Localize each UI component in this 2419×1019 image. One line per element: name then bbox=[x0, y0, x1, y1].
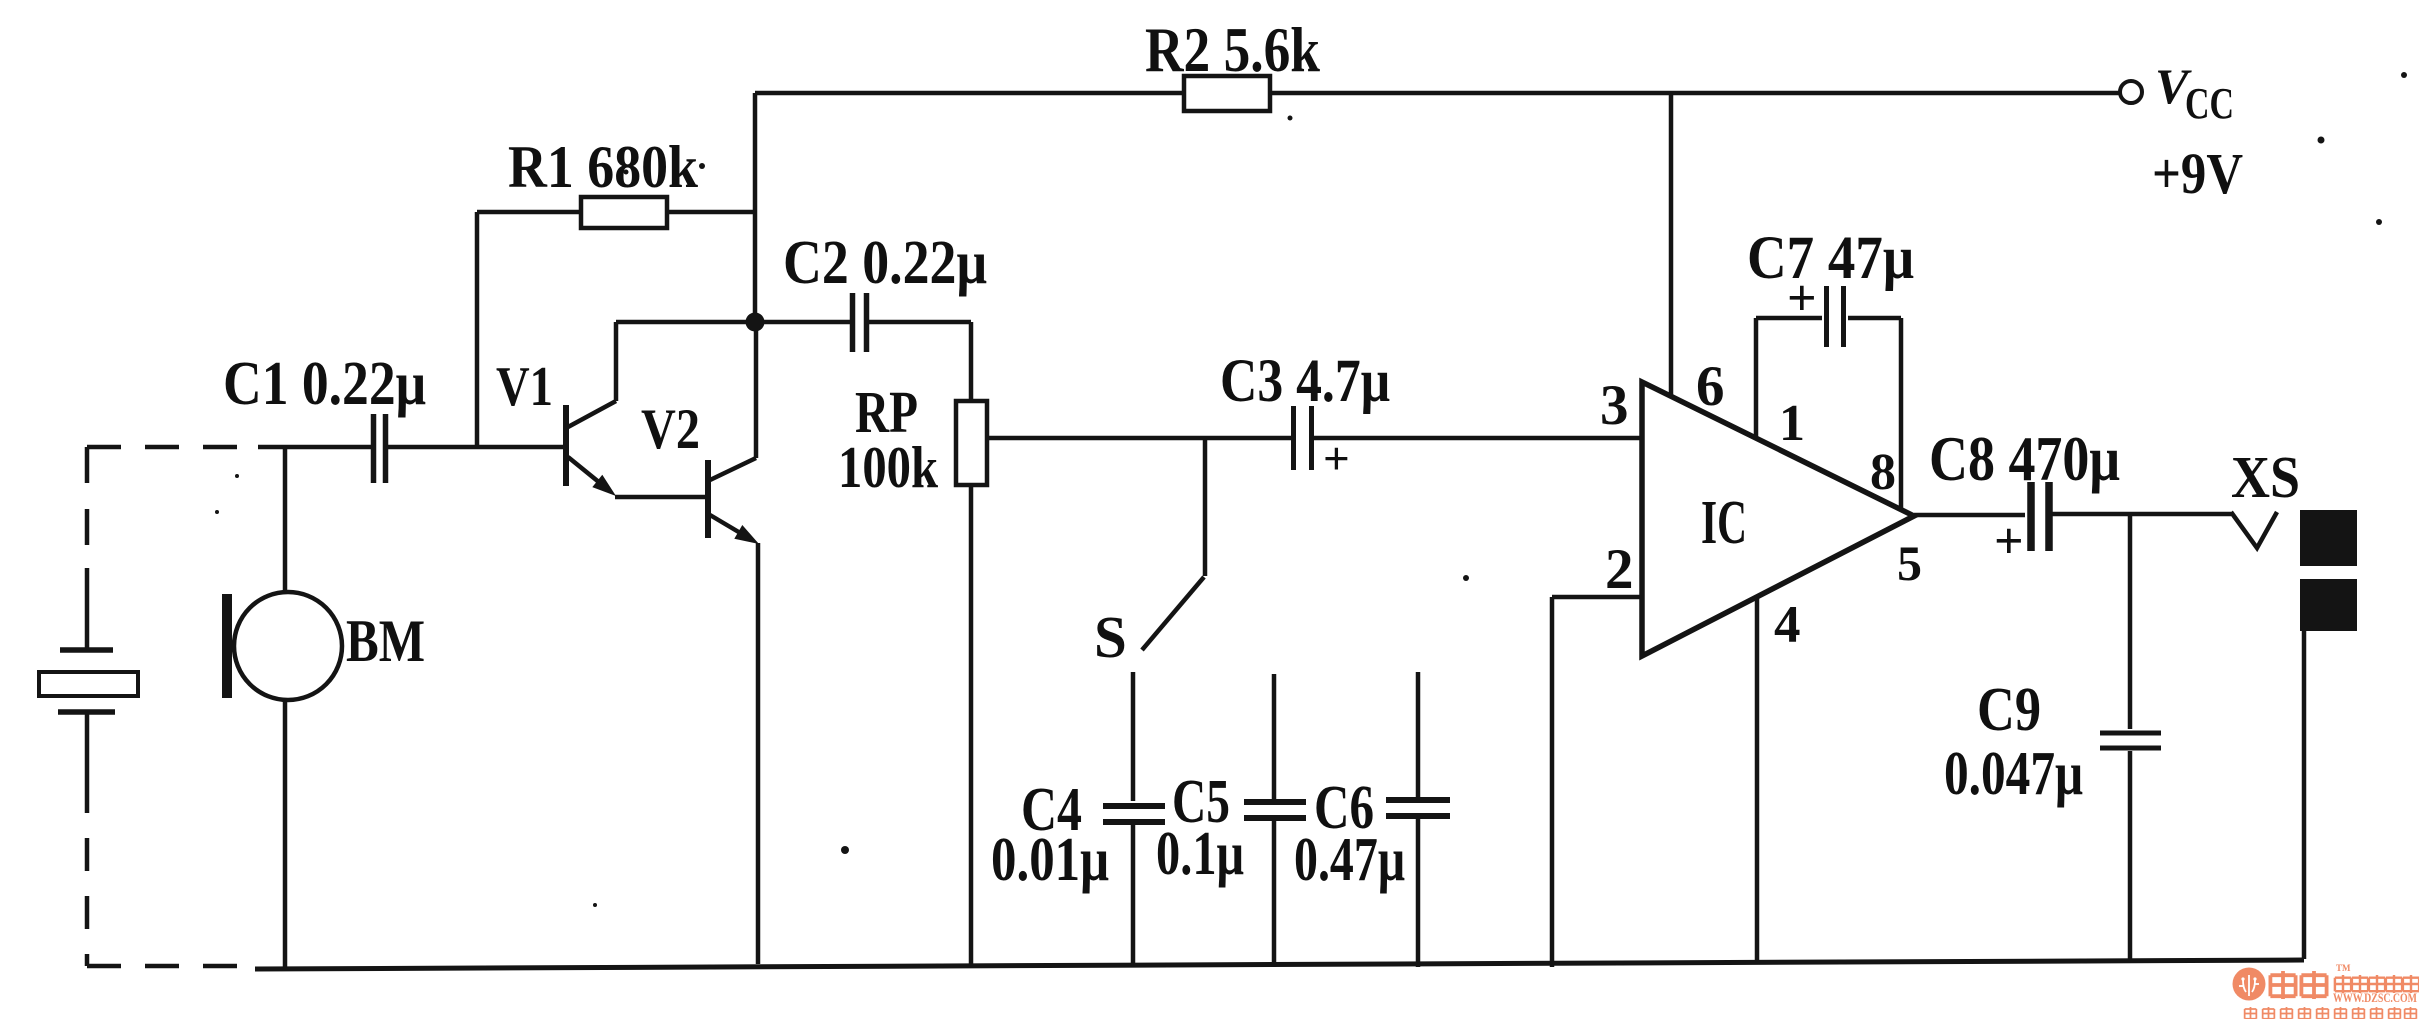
svg-text:XS: XS bbox=[2231, 444, 2300, 510]
svg-text:R2 5.6k: R2 5.6k bbox=[1145, 15, 1320, 85]
svg-text:C2 0.22μ: C2 0.22μ bbox=[783, 229, 987, 297]
svg-text:C7 47μ: C7 47μ bbox=[1747, 225, 1914, 292]
svg-text:S: S bbox=[1094, 604, 1127, 670]
svg-text:3: 3 bbox=[1600, 374, 1629, 437]
svg-text:0.1μ: 0.1μ bbox=[1156, 820, 1244, 888]
svg-text:2: 2 bbox=[1605, 538, 1634, 601]
svg-text:0.47μ: 0.47μ bbox=[1294, 826, 1405, 894]
svg-text:V1: V1 bbox=[496, 356, 553, 418]
svg-text:+: + bbox=[1323, 433, 1350, 485]
svg-text:C1 0.22μ: C1 0.22μ bbox=[223, 350, 426, 418]
svg-text:V2: V2 bbox=[641, 398, 700, 461]
svg-text:4: 4 bbox=[1774, 596, 1801, 654]
svg-text:100k: 100k bbox=[838, 434, 938, 500]
svg-text:6: 6 bbox=[1696, 355, 1725, 418]
svg-text:C3 4.7μ: C3 4.7μ bbox=[1220, 348, 1390, 415]
svg-text:+9V: +9V bbox=[2152, 141, 2243, 206]
svg-text:C9: C9 bbox=[1977, 676, 2041, 744]
svg-text:+: + bbox=[1994, 513, 2024, 570]
svg-text:WWW.DZSC.COM: WWW.DZSC.COM bbox=[2333, 990, 2417, 1005]
svg-text:TM: TM bbox=[2336, 963, 2351, 973]
svg-text:IC: IC bbox=[1701, 489, 1747, 557]
svg-text:CC: CC bbox=[2185, 79, 2234, 128]
svg-text:1: 1 bbox=[1779, 395, 1805, 452]
svg-text:R1 680k: R1 680k bbox=[508, 134, 699, 200]
svg-text:C8 470μ: C8 470μ bbox=[1929, 423, 2120, 494]
svg-text:BM: BM bbox=[346, 608, 425, 674]
svg-text:8: 8 bbox=[1870, 444, 1896, 501]
svg-text:+: + bbox=[1787, 270, 1817, 327]
svg-text:5: 5 bbox=[1897, 535, 1922, 591]
svg-text:0.047μ: 0.047μ bbox=[1944, 740, 2083, 808]
svg-text:0.01μ: 0.01μ bbox=[991, 826, 1109, 894]
